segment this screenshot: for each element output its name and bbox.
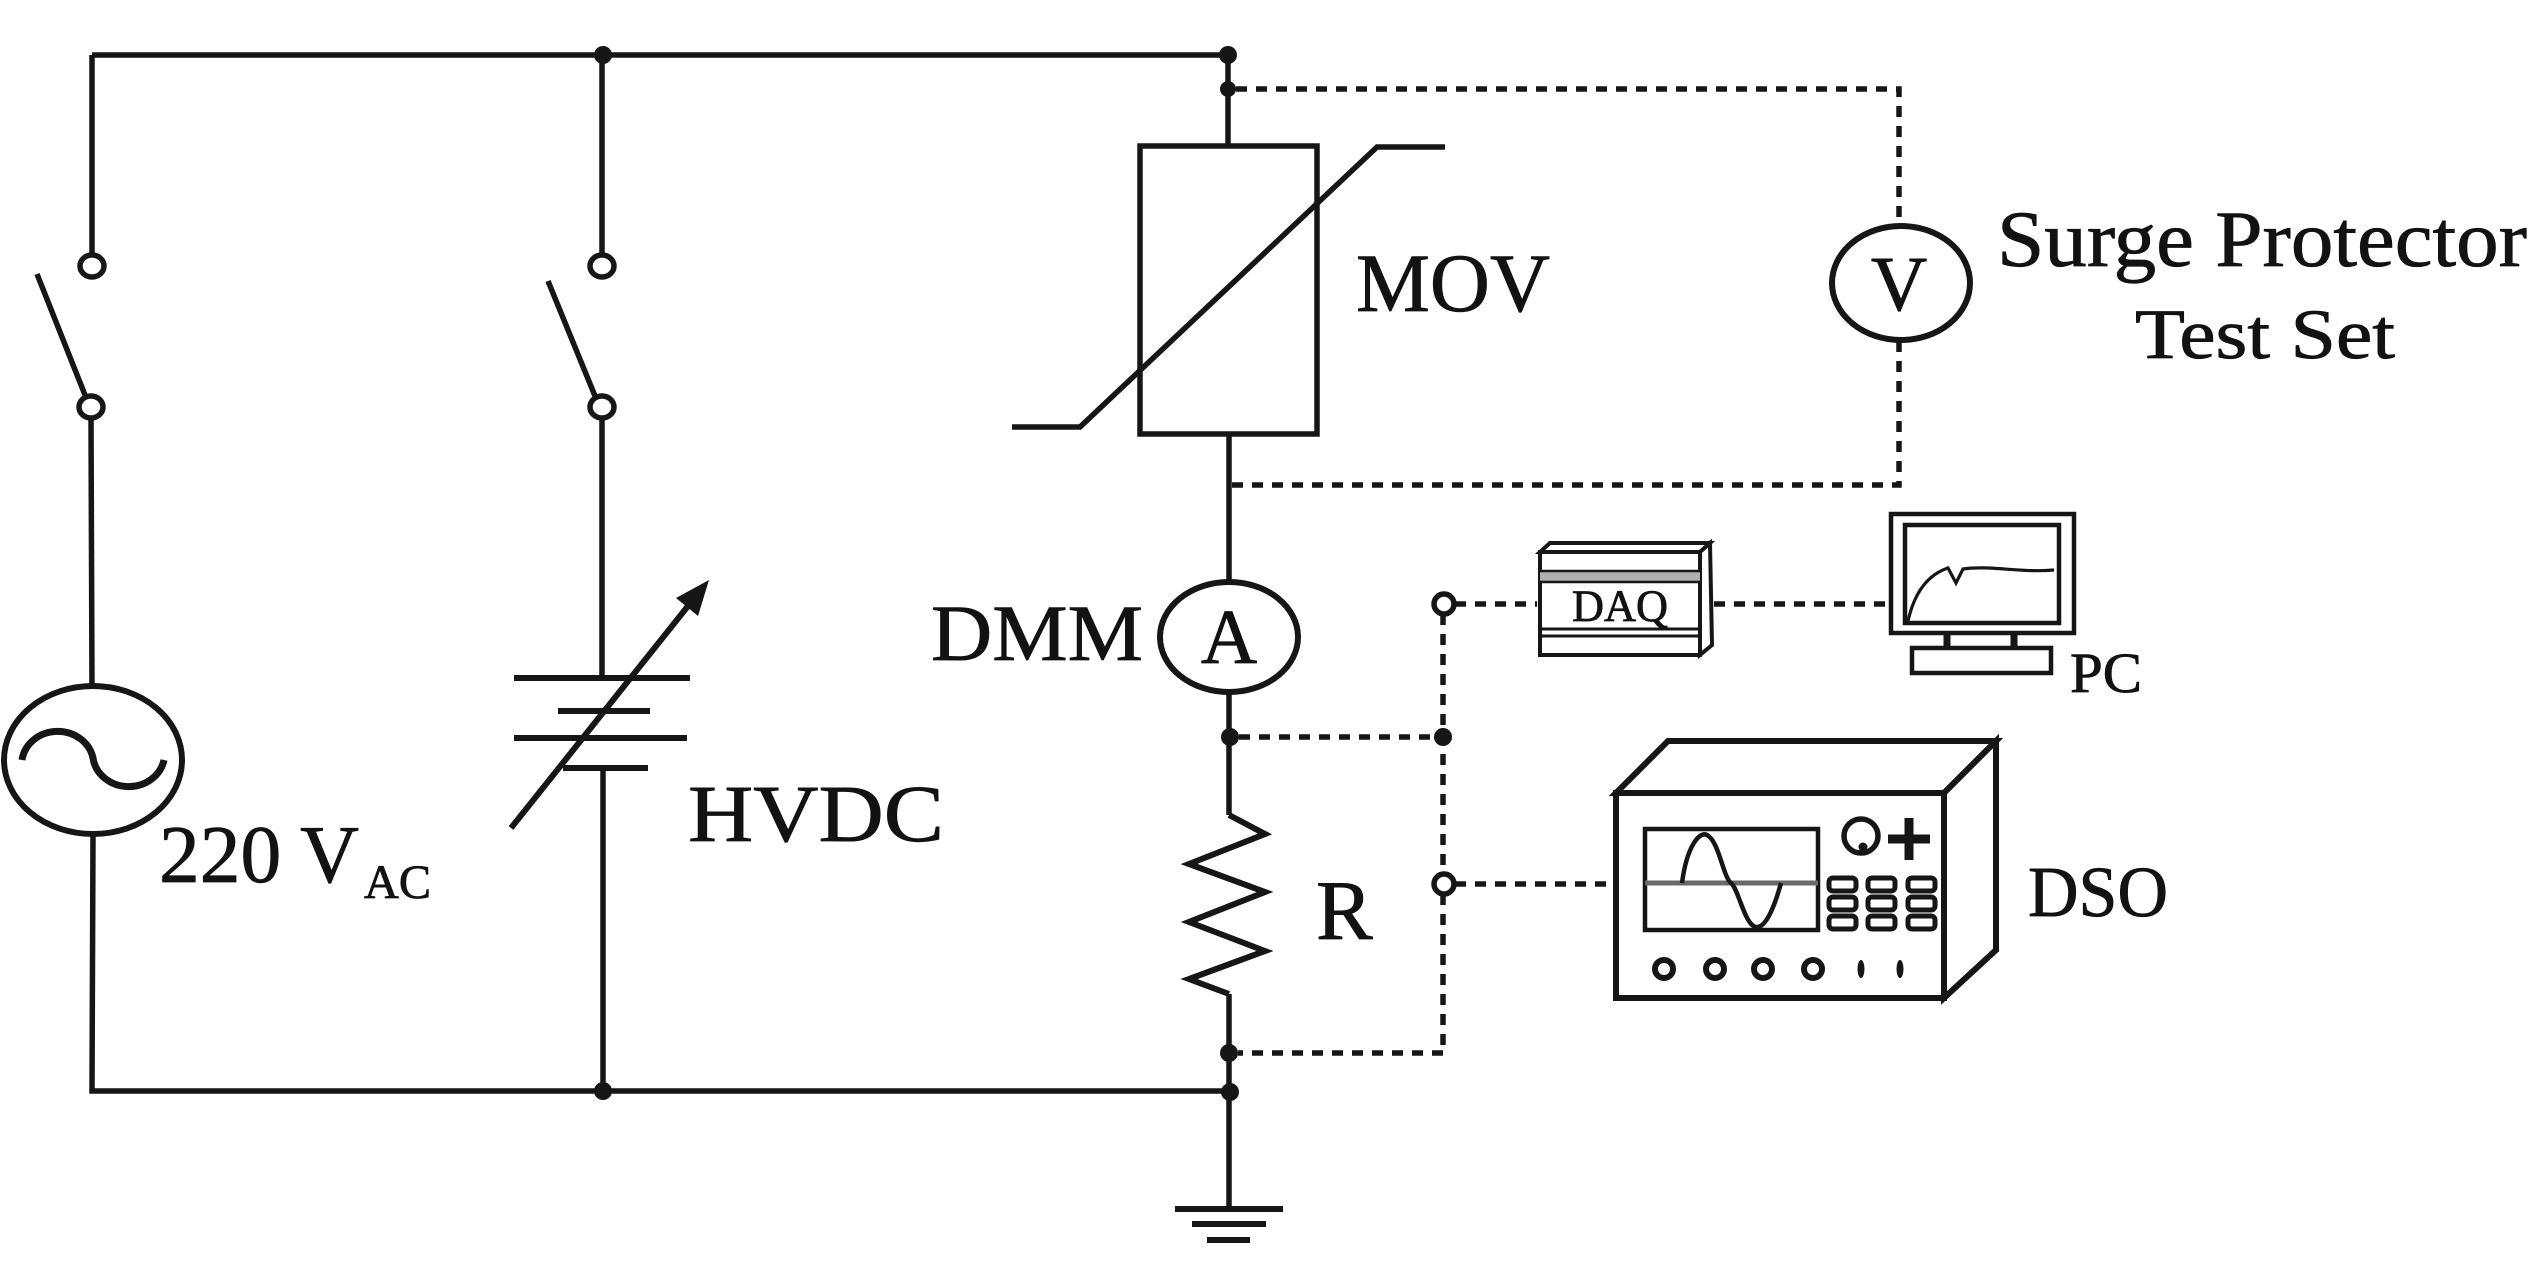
svg-text:V: V [1871, 240, 1927, 327]
node junction bottom right [1221, 1083, 1239, 1101]
node dotted tap below top-right junction [1220, 81, 1236, 97]
wire ammeter to resistor [1226, 692, 1232, 815]
svg-text:R: R [1316, 864, 1373, 958]
battery HVDC variable [511, 580, 709, 828]
wire middle vertical upper [599, 55, 605, 254]
dotted wire junction to DAQ tap vertical [1238, 614, 1443, 1053]
wire MOV branch top [1225, 55, 1231, 146]
svg-text:AC: AC [364, 856, 431, 909]
AC source 220VAC [4, 686, 182, 834]
wire middle vertical below battery [600, 768, 606, 1091]
dotted wire DAQ to PC [1714, 601, 1888, 607]
ammeter A (DMM) [1160, 582, 1298, 692]
node dotted tap below resistor [1220, 1044, 1238, 1062]
wire top horizontal bus [92, 52, 1228, 58]
node open terminal to DSO [1434, 874, 1454, 894]
node junction top middle [594, 46, 612, 64]
wire below MOV to ammeter [1226, 434, 1232, 583]
resistor R zigzag [1189, 815, 1265, 994]
switch S1 (left) [37, 255, 104, 418]
svg-text:DAQ: DAQ [1572, 581, 1668, 631]
dotted wire tap to DSO [1455, 881, 1613, 887]
svg-text:Surge Protector: Surge Protector [1997, 196, 2527, 284]
svg-text:HVDC: HVDC [688, 769, 944, 859]
varistor MOV [1012, 146, 1445, 434]
svg-text:A: A [1201, 593, 1257, 680]
svg-text:DMM: DMM [931, 590, 1143, 678]
dotted wire MOV top to voltmeter [1236, 89, 1899, 222]
DSO oscilloscope [1616, 741, 1996, 998]
dotted wire voltmeter to MOV bottom [1232, 341, 1899, 485]
node junction top right [1219, 46, 1237, 64]
DAQ box [1540, 543, 1712, 655]
svg-text:220 V: 220 V [159, 809, 359, 900]
switch S2 (middle) [548, 255, 614, 418]
ground [1175, 1209, 1283, 1240]
node junction below ammeter [1221, 728, 1239, 746]
wire left vertical lower + bottom bus [92, 834, 1231, 1091]
wire left vertical middle [91, 418, 92, 687]
node junction bottom middle [594, 1082, 612, 1100]
PC monitor [1891, 514, 2074, 673]
node open terminal to DAQ [1434, 594, 1454, 614]
dotted wire tap to DAQ [1455, 601, 1537, 607]
wire left vertical upper [89, 55, 95, 254]
wire resistor to ground [1226, 994, 1232, 1209]
voltmeter V circle [1832, 226, 1970, 340]
svg-text:PC: PC [2070, 642, 2142, 705]
svg-text:DSO: DSO [2028, 852, 2168, 932]
wire middle vertical to battery [599, 418, 605, 678]
svg-text:Test Set: Test Set [2135, 296, 2395, 374]
node dotted junction cross [1434, 728, 1452, 746]
svg-text:MOV: MOV [1356, 237, 1550, 329]
